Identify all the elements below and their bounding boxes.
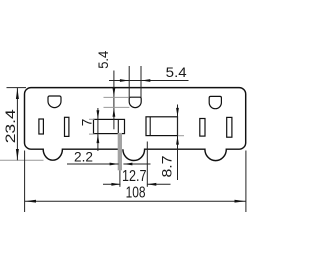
svg-text:5.4: 5.4 [166,64,187,80]
slot right outlet, left [200,119,205,137]
dimension 108: dim line [25,200,246,202]
dimension 5.4 vertical: gray extension bottom of ground [104,106,130,108]
dimension 2.2 (wall thickness): left line + right-pointing arrowhead [67,163,119,165]
dimension 108: right ext line [245,151,247,213]
dimension 8.7 (middle-right slot height): stem [177,105,179,181]
ground hole right outlet [209,96,221,108]
svg-text:108: 108 [126,184,146,201]
outline of triple-outlet body [25,88,246,161]
dimension 8.7: gray ext [178,135,184,137]
slot middle outlet, left (wide) [94,119,125,133]
dimension 23.4: top extension line [7,87,27,89]
dimension 7 (middle-left slot height): stem [97,108,99,151]
ground hole left outlet [48,96,61,108]
dimension 23.4: up arrowhead [16,88,19,99]
slot right outlet, right [227,117,232,137]
dimension 5.4 horizontal: right ext line [140,66,142,97]
dimension 5.4 vertical: down arrowhead [113,88,116,97]
svg-text:7: 7 [80,119,95,127]
dimension 5.4 horizontal (middle ground width): dim line [109,80,189,82]
dimension 23.4: down arrowhead [16,149,19,160]
svg-text:8.7: 8.7 [158,155,174,177]
dimension 108: left ext line [24,151,26,213]
dimension 7: gray ext top [89,118,95,120]
section wall (gray cut wall of middle bump) [118,133,122,170]
dimension 23.4: stem [16,88,18,161]
dimension 7: down arrowhead [97,110,100,119]
svg-text:5.4: 5.4 [95,51,111,69]
dimension 8.7: down arrowhead [176,108,179,117]
svg-text:12.7: 12.7 [122,168,147,185]
dimension 5.4 vertical: up arrowhead [113,108,116,117]
svg-text:2.2: 2.2 [74,150,93,165]
slot left outlet, left [39,119,44,134]
dimension 8.7: up arrowhead [176,136,179,145]
dimension 5.4 horizontal: left-pointing arrowhead [141,79,150,82]
dimension 12.7: right ext line [146,142,148,187]
dimension 5.4 horizontal: right-pointing arrowhead [120,79,129,82]
dimension 5.4 horizontal: left ext line [128,66,130,97]
inner wall line in middle-left slot [117,119,119,133]
slot middle outlet, right (wide) [146,117,178,136]
svg-text:23.4: 23.4 [2,109,18,143]
dimension 12.7: left line + right-pointing arrowhead [103,183,120,185]
dimension 7: up arrowhead [97,134,100,143]
dimension 12.7: left ext line [119,170,121,187]
dimension 5.4 vertical: gray extension top of ground [104,96,130,98]
dimension 23.4: bottom extension line (gray, bump bottom) [0,159,44,161]
dimension 5.4 vertical (middle ground height): stem [113,71,115,130]
inner wall line in middle-right slot [149,117,151,136]
dimension 2.2: right line + left-pointing arrowhead [123,163,150,165]
dimension 108: right arrowhead [235,200,246,203]
dimension 7: gray ext bottom [89,133,95,135]
ground hole middle outlet [129,97,141,107]
slot left outlet, right [65,117,69,136]
dimension 108: left arrowhead [25,200,36,203]
dimension 12.7: right line + left-pointing arrowhead [147,183,170,185]
